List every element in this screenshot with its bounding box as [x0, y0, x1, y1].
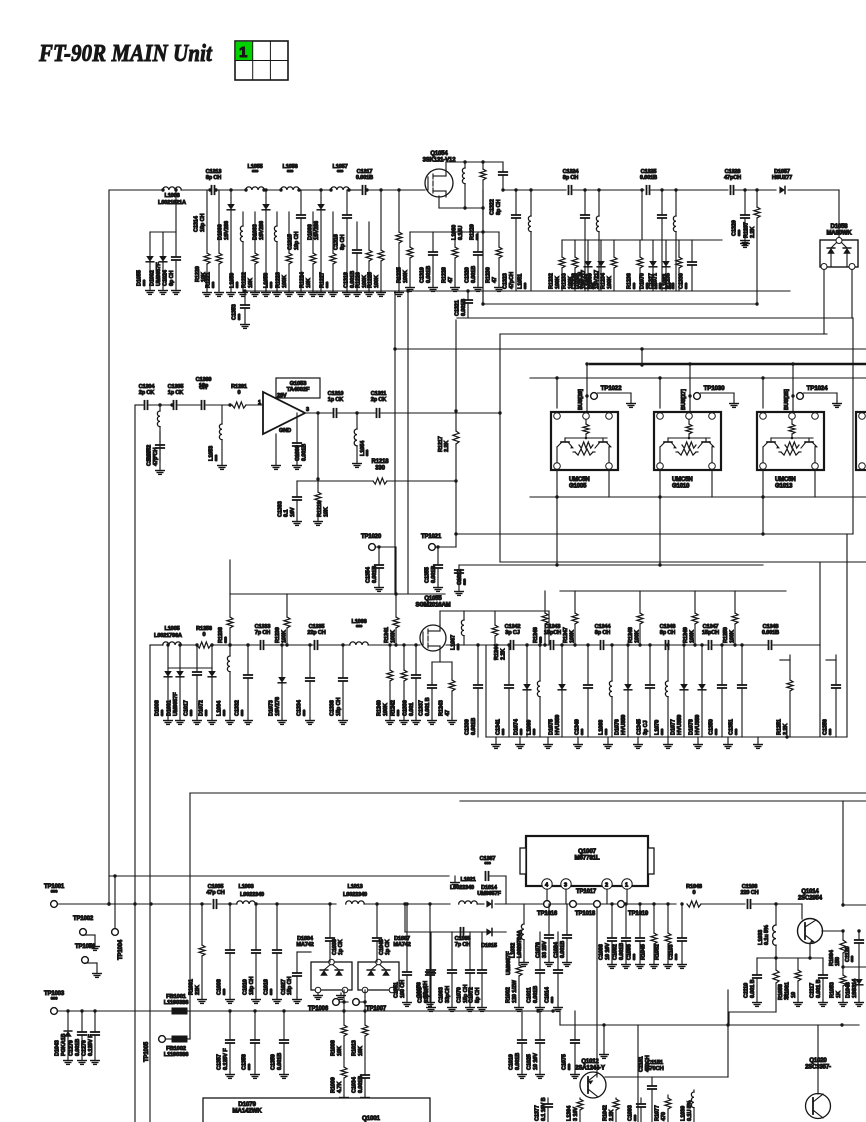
diode D1015 [481, 928, 497, 949]
junction [640, 347, 643, 350]
svg-text:UMC5N: UMC5N [569, 477, 590, 483]
svg-text:R1248: R1248 [628, 627, 634, 643]
wire [788, 189, 839, 191]
svg-text:R1228: R1228 [442, 267, 448, 283]
capacitor C1312 [455, 565, 470, 595]
inductor L1062 [586, 190, 599, 291]
wire [713, 644, 767, 646]
capacitor C1330 [679, 240, 697, 291]
wire [503, 189, 566, 191]
svg-text:0.001B: 0.001B [640, 175, 657, 181]
resistor R1233 [562, 240, 578, 291]
junction [688, 362, 691, 365]
diode D1057 [772, 169, 792, 194]
svg-text:47p CH: 47p CH [206, 890, 224, 896]
junction [841, 965, 844, 968]
capacitor C1304 [139, 384, 156, 409]
label G1010 [672, 477, 693, 489]
junction [466, 289, 469, 292]
capacitor C1305 [168, 384, 184, 409]
label TP1004 [118, 939, 124, 960]
svg-text:0.001 B: 0.001 B [750, 979, 756, 998]
svg-text:TP1021: TP1021 [421, 534, 442, 540]
junction [720, 643, 723, 646]
diode D1072 [199, 645, 217, 724]
wire [305, 412, 332, 414]
junction [610, 902, 613, 905]
junction [379, 188, 382, 191]
junction [170, 403, 173, 406]
svg-text:C1018: C1018 [264, 979, 270, 995]
wire [817, 1025, 819, 1094]
svg-text:R1251: R1251 [777, 719, 783, 735]
svg-text:R1249: R1249 [683, 627, 689, 643]
svg-text:***: *** [484, 862, 491, 868]
junction [551, 1009, 554, 1012]
inductor L1005 [163, 626, 182, 645]
capacitor C1317 [356, 169, 373, 194]
wire [757, 957, 823, 959]
svg-text:R1238: R1238 [218, 627, 224, 643]
svg-text:470: 470 [661, 1112, 667, 1121]
junction [210, 643, 213, 646]
capacitor C1120 [845, 931, 863, 967]
junction [454, 409, 457, 412]
svg-text:L1021: L1021 [460, 877, 475, 883]
capacitor C1346 [660, 624, 676, 649]
inductor L1052 [147, 405, 160, 462]
svg-text:0.1u 5%: 0.1u 5% [764, 925, 770, 945]
capacitor C1377 [535, 1097, 553, 1122]
wire [727, 990, 729, 1077]
capacitor C1359 [271, 1011, 289, 1078]
capacitor C1075 [562, 1011, 580, 1078]
resistor R1249 [683, 591, 698, 645]
label L0022340 [240, 892, 264, 898]
wire [206, 404, 230, 406]
svg-text:***: *** [568, 1063, 574, 1070]
transistor Q1054 [423, 151, 457, 197]
diode D1066 [308, 198, 326, 296]
junction [682, 643, 685, 646]
svg-text:L1068: L1068 [599, 720, 605, 735]
svg-text:***: *** [223, 709, 229, 716]
wire [486, 736, 847, 738]
junction [107, 902, 110, 905]
capacitor C1063 [439, 932, 457, 1011]
svg-text:R1247: R1247 [563, 627, 569, 643]
wire [560, 590, 786, 592]
junction [328, 902, 331, 905]
wire [150, 644, 163, 646]
inductor L1021 [459, 877, 478, 904]
junction [555, 563, 558, 566]
svg-text:0.001 B: 0.001 B [425, 697, 431, 716]
wire [651, 189, 728, 191]
test point TP1016 [537, 901, 558, 917]
capacitor C1320 [465, 232, 483, 291]
wire [852, 318, 854, 534]
junction [761, 495, 764, 498]
svg-text:C1056: C1056 [417, 982, 423, 998]
wire [440, 610, 549, 612]
svg-text:C1322: C1322 [490, 199, 496, 215]
junction [585, 394, 588, 397]
test point TP1005 [159, 1036, 166, 1043]
svg-text:C1329: C1329 [732, 220, 738, 236]
junction [428, 902, 431, 905]
svg-text:HVU359: HVU359 [555, 715, 561, 735]
label TP1005 [144, 1041, 150, 1062]
resistor R1217 [438, 320, 459, 547]
wire [381, 412, 500, 414]
capacitor C1356 [823, 660, 841, 737]
capacitor C1017 [184, 645, 202, 724]
wire [659, 470, 661, 565]
svg-text:0.125V F: 0.125V F [88, 1034, 94, 1056]
svg-text:C1092: C1092 [613, 944, 619, 960]
svg-text:TP1004: TP1004 [118, 939, 124, 960]
wire [762, 470, 764, 534]
wire [801, 904, 803, 919]
svg-text:C1117: C1117 [810, 983, 816, 998]
wire [319, 644, 350, 646]
ground [741, 241, 750, 247]
svg-text:D1046: D1046 [846, 982, 852, 998]
junction [726, 1023, 729, 1026]
junction [308, 643, 311, 646]
capacitor C1027 [281, 952, 301, 1003]
svg-text:5p CH: 5p CH [475, 987, 481, 1003]
svg-text:***: *** [520, 728, 526, 735]
svg-text:1p CK: 1p CK [385, 939, 391, 955]
svg-text:1SV217: 1SV217 [581, 270, 587, 289]
junction [666, 643, 669, 646]
junction [178, 643, 181, 646]
label L0022340 [450, 885, 474, 891]
ground [91, 944, 100, 950]
svg-text:0.001B: 0.001B [762, 630, 779, 636]
svg-text:C1350: C1350 [709, 719, 715, 735]
svg-text:M67781L: M67781L [574, 855, 599, 862]
capacitor C1338 [330, 645, 348, 724]
svg-text:***: *** [238, 313, 244, 320]
svg-text:C1120: C1120 [845, 947, 851, 962]
resistor R1008 [331, 1011, 347, 1058]
svg-text:Q1012: Q1012 [581, 1059, 599, 1065]
junction [208, 188, 211, 191]
svg-text:0.001: 0.001 [409, 703, 415, 716]
IC G1010 [654, 412, 721, 470]
wire [445, 162, 447, 169]
capacitor C1151 [639, 1055, 657, 1122]
svg-text:47: 47 [445, 710, 451, 716]
label UM9957F [506, 951, 512, 975]
wire [605, 644, 664, 646]
junction [525, 643, 528, 646]
junction [463, 160, 466, 163]
svg-text:FB1001: FB1001 [166, 994, 187, 1000]
wire [779, 659, 781, 661]
svg-text:TP1020: TP1020 [361, 534, 382, 540]
zener diode D1043 [55, 1011, 73, 1064]
svg-text:Q1001: Q1001 [362, 1115, 381, 1122]
svg-text:UM9957F: UM9957F [506, 951, 512, 975]
wire [505, 876, 507, 904]
svg-text:C1027: C1027 [281, 979, 287, 995]
wire [641, 349, 643, 365]
svg-text:16V: 16V [290, 507, 296, 517]
svg-text:C1354: C1354 [366, 566, 372, 583]
svg-text:0.001B: 0.001B [356, 175, 373, 181]
svg-text:***: *** [533, 728, 539, 735]
svg-text:C1017: C1017 [184, 700, 190, 716]
svg-text:C1359: C1359 [271, 1054, 277, 1070]
svg-text:0.001B: 0.001B [471, 718, 477, 735]
svg-text:D1002: D1002 [150, 270, 156, 286]
svg-text:C1338: C1338 [330, 700, 336, 716]
inductor L1056 [281, 164, 300, 190]
junction [476, 643, 479, 646]
junction [80, 1009, 83, 1012]
svg-text:100K: 100K [569, 630, 575, 643]
capacitor C1024 [163, 232, 181, 294]
resistor R1240 [377, 645, 395, 724]
wire [404, 904, 406, 932]
svg-text:C1309: C1309 [295, 445, 301, 461]
junction [200, 902, 203, 905]
wire [459, 564, 763, 566]
svg-text:100K: 100K [607, 276, 613, 289]
diode D1071 [653, 240, 670, 291]
inductor L1058 [264, 212, 282, 296]
resistor R1077 [655, 1095, 671, 1122]
wire [482, 208, 484, 304]
resistor R1238 [218, 594, 233, 645]
test point TP1017 [570, 889, 597, 907]
label CH [199, 385, 207, 391]
wire [394, 291, 396, 594]
junction [228, 643, 231, 646]
resistor C1314 [194, 190, 212, 296]
svg-text:100K: 100K [555, 276, 561, 289]
resistor R1251 [777, 660, 793, 737]
wire [603, 1025, 605, 1052]
wire [135, 404, 143, 406]
svg-text:D1015: D1015 [481, 943, 497, 949]
junction [228, 902, 231, 905]
junction [680, 902, 683, 905]
svg-text:R1243: R1243 [439, 700, 445, 716]
resistor R1226 [356, 222, 374, 296]
wire [109, 875, 449, 877]
svg-text:L1054: L1054 [360, 440, 366, 456]
svg-text:C1316: C1316 [334, 234, 340, 250]
diode D1073 [269, 645, 287, 724]
svg-text:D1043: D1043 [55, 1040, 61, 1056]
svg-text:L1064: L1064 [217, 700, 223, 716]
capacitor C1316 [334, 190, 352, 296]
svg-text:7p CH: 7p CH [255, 630, 271, 636]
wire [85, 962, 97, 964]
wire [109, 189, 163, 191]
svg-text:***: *** [851, 955, 857, 962]
diode array D1007 [358, 936, 411, 993]
wire [485, 645, 487, 737]
wire [637, 1025, 639, 1122]
svg-text:C1349: C1349 [575, 719, 581, 735]
resistor R1243 [439, 662, 457, 724]
resistor R1222 [242, 212, 260, 296]
capacitor C1319 [420, 232, 438, 291]
svg-text:1SV286: 1SV286 [259, 221, 265, 240]
wire [387, 480, 456, 482]
svg-text:C1356: C1356 [823, 719, 829, 735]
svg-text:C1320: C1320 [465, 267, 471, 283]
ground [492, 737, 501, 748]
junction [174, 188, 177, 191]
svg-text:0.001B: 0.001B [75, 1039, 81, 1056]
svg-text:0.001B: 0.001B [461, 299, 467, 316]
wire [435, 546, 456, 548]
diode array D1058 [820, 224, 858, 270]
wire [446, 161, 503, 163]
IC partial [856, 412, 866, 470]
resistor R1002 [506, 932, 524, 1011]
junction [481, 302, 484, 305]
svg-text:L1053: L1053 [209, 446, 215, 461]
svg-text:CH: CH [199, 385, 207, 391]
junction [454, 532, 457, 535]
resistor R1236 [627, 240, 643, 291]
resistor R1048 [686, 884, 702, 907]
ground [337, 993, 346, 999]
junction [624, 902, 627, 905]
test point TP1030 [694, 385, 725, 399]
svg-text:***: *** [303, 709, 309, 716]
junction [264, 188, 267, 191]
svg-text:150: 150 [835, 957, 841, 966]
wire [711, 470, 713, 497]
wire [596, 1070, 598, 1077]
svg-text:***: *** [633, 953, 639, 960]
junction [658, 495, 661, 498]
label C1151 [646, 1060, 664, 1072]
ground [598, 393, 636, 407]
svg-text:C1063: C1063 [439, 987, 445, 1003]
transistor Q1014 [798, 889, 823, 944]
resistor R1261 [231, 384, 247, 408]
svg-text:C1051: C1051 [394, 982, 400, 998]
wire [608, 470, 610, 497]
svg-text:D1060: D1060 [218, 224, 224, 240]
svg-text:***: *** [715, 728, 721, 735]
svg-text:C1351: C1351 [729, 719, 735, 735]
inductor L1060 [452, 162, 465, 240]
inductor L1008 [163, 187, 182, 199]
svg-text:R1052: R1052 [655, 944, 661, 960]
capacitor C1310 [328, 391, 344, 417]
svg-text:0.001B: 0.001B [301, 444, 307, 461]
wire [178, 404, 200, 406]
svg-text:L1033: L1033 [758, 930, 764, 945]
svg-text:C1093: C1093 [628, 1105, 634, 1121]
svg-text:10K: 10K [358, 1046, 364, 1056]
capacitor C1333 [255, 624, 271, 649]
svg-text:***: *** [252, 170, 259, 176]
junction [279, 188, 282, 191]
resistor R1228 [442, 232, 460, 291]
junction [761, 376, 764, 379]
wire [230, 593, 445, 595]
svg-text:2SA1244-Y: 2SA1244-Y [575, 1065, 605, 1071]
svg-text:R1241: R1241 [384, 627, 390, 643]
svg-text:***: *** [326, 281, 332, 288]
svg-text:47: 47 [448, 277, 454, 283]
svg-text:0.001B: 0.001B [515, 1053, 521, 1070]
capacitor C1342 [505, 624, 521, 649]
svg-text:0: 0 [203, 632, 206, 638]
capacitor C1076 [536, 904, 554, 966]
svg-text:R1232: R1232 [549, 273, 555, 289]
svg-text:L1005: L1005 [164, 626, 179, 632]
svg-text:47pCH: 47pCH [724, 175, 741, 181]
svg-text:100K: 100K [374, 275, 380, 288]
svg-text:Q1014: Q1014 [801, 889, 819, 895]
svg-text:10K: 10K [337, 1046, 343, 1056]
capacitor C1103 [669, 904, 687, 968]
svg-text:R1239: R1239 [275, 627, 281, 643]
junction [93, 1009, 96, 1012]
svg-text:C1008: C1008 [217, 979, 223, 995]
svg-text:10K: 10K [248, 278, 254, 288]
svg-text:100K: 100K [281, 630, 287, 643]
wire [438, 196, 440, 208]
svg-text:100 CH: 100 CH [400, 980, 406, 998]
capacitor C1329 [732, 190, 750, 244]
svg-text:120 1/2W: 120 1/2W [512, 979, 518, 1003]
resistor R1239 [275, 594, 290, 645]
diode D1063 [253, 198, 271, 296]
svg-text:0.001B: 0.001B [619, 943, 625, 960]
ground [664, 737, 673, 748]
resistor R1244 [492, 611, 507, 660]
svg-text:D1058: D1058 [831, 224, 849, 230]
wire [405, 931, 506, 933]
svg-text:TP1030: TP1030 [704, 385, 725, 392]
junction [602, 1023, 605, 1026]
svg-text:***: *** [633, 282, 639, 289]
resistor R1223 [276, 212, 294, 296]
junction [536, 1009, 539, 1012]
resistor R1227 [320, 212, 338, 296]
wire [456, 533, 853, 535]
wire [432, 661, 452, 663]
label L0022340 [343, 892, 367, 898]
test point TP1020 [361, 534, 382, 550]
junction [808, 956, 811, 959]
diode D1068 [575, 240, 592, 291]
svg-text:R1244: R1244 [494, 643, 500, 660]
wire [505, 931, 507, 933]
svg-text:0.1U 5%: 0.1U 5% [687, 1100, 693, 1121]
wire [659, 378, 661, 408]
svg-text:R1061: R1061 [785, 982, 791, 998]
capacitor C1341 [496, 645, 514, 737]
svg-text:***: *** [539, 636, 545, 643]
junction [597, 188, 600, 191]
svg-text:L1067: L1067 [451, 635, 457, 650]
